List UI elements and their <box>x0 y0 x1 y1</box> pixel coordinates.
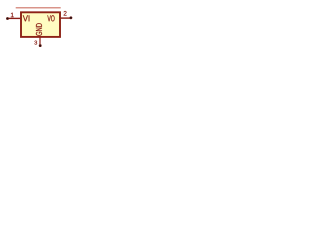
pin 2 end dot <box>70 17 72 19</box>
faint horizontal line (cropped element at top) <box>16 7 61 9</box>
pin number 2 <box>64 11 67 15</box>
wire: bottom pin 3 <box>39 38 41 45</box>
pin number 3 <box>34 41 37 45</box>
background <box>0 0 80 58</box>
wire: right pin 2 <box>61 17 70 19</box>
pin name VI <box>23 15 30 21</box>
pin name VO <box>47 15 54 21</box>
pin 3 end dot <box>39 44 41 46</box>
wire: left pin 1 <box>9 17 21 19</box>
pin number 1 <box>11 13 14 17</box>
symbol body U1 <box>21 12 60 37</box>
pin 1 end dot <box>6 17 8 19</box>
pin name GND (rotated) <box>36 23 42 35</box>
